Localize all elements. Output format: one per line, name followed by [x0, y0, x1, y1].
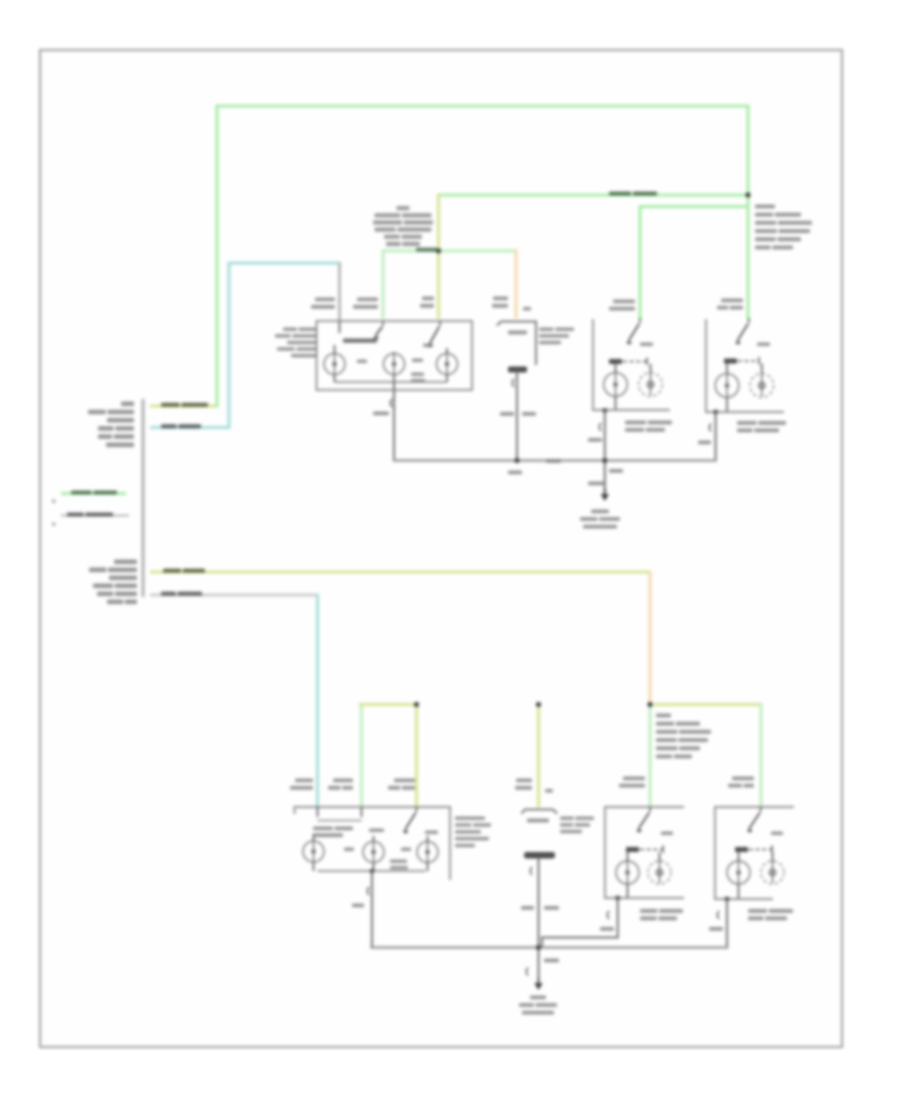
- LLR switch: [649, 807, 651, 812]
- lower module stem: [371, 871, 373, 948]
- wire pale green drop x650 low: [648, 705, 651, 807]
- wire green right drop: [746, 106, 749, 195]
- wire courtesy feed (cyan) stub: [150, 426, 229, 429]
- LRR gnd junction: [725, 897, 730, 902]
- lower module rail bottom: [318, 870, 426, 872]
- label C404: [588, 482, 604, 486]
- pin 2 switch: [382, 321, 384, 326]
- lower switch label: [425, 831, 438, 835]
- wire green right drop to switch: [746, 195, 749, 318]
- wire yg bridge top: [360, 703, 416, 706]
- module stem bracket: [390, 399, 392, 407]
- LLR stem bracket: [607, 911, 609, 919]
- engine lamp filament: [508, 367, 527, 373]
- LLR switch label: [661, 832, 673, 836]
- cargo lamp label: [560, 817, 574, 821]
- lower lamp 3: [417, 842, 438, 863]
- LR lamp A: [604, 373, 628, 397]
- junction dot S302 overlay: [647, 702, 652, 707]
- lower pin label 3: [394, 779, 415, 783]
- wire pale green drop x761: [759, 705, 762, 807]
- wire orange drop x650: [648, 572, 651, 704]
- cargo stem: [538, 859, 540, 982]
- junction dot bridge: [414, 702, 419, 707]
- lower module text2: [369, 829, 384, 833]
- upper ground bus: [394, 459, 716, 462]
- lower pin 1 stub: [317, 807, 319, 817]
- ground G302 label: [530, 996, 546, 1000]
- RR switch label: [757, 343, 770, 347]
- LR connector bar: [609, 359, 622, 364]
- lower pin 3 switch: [416, 807, 418, 812]
- switch small label: [423, 344, 433, 348]
- lower ground bus: [372, 946, 728, 949]
- pin 1 stub: [339, 321, 341, 333]
- cargo pin small: [545, 789, 553, 793]
- lower stem label: [352, 904, 364, 908]
- wire cyan riser: [229, 263, 340, 428]
- wire green mid run y195: [439, 193, 749, 196]
- RR switch: [748, 318, 750, 323]
- junction dot S301 overlay: [436, 248, 441, 253]
- ground G302: [538, 977, 540, 983]
- LR stem bracket: [599, 423, 601, 431]
- LLR lamp B: [648, 861, 671, 884]
- wire yg run y704: [650, 703, 761, 706]
- wire label courtesy stub: [161, 424, 177, 428]
- connector C270 face line: [141, 399, 144, 597]
- module blob mid2: [411, 373, 424, 377]
- lower module rail: [295, 806, 451, 808]
- legend wire LB/RD: [61, 492, 126, 495]
- lower pin label 2: [333, 779, 353, 783]
- lower module label right: [455, 817, 485, 821]
- label S404: [609, 469, 623, 473]
- junction dot cargo top: [536, 702, 541, 707]
- legend wire BK/PK: [61, 514, 129, 516]
- cargo lower bracket: [526, 968, 528, 976]
- LR label: [625, 421, 646, 425]
- LR switch label: [640, 343, 653, 347]
- junction dot cargo top overlay: [536, 702, 541, 707]
- dome lamp 2: [384, 354, 405, 375]
- junction dot S300 overlay: [745, 192, 750, 197]
- LLR pin label: [623, 777, 645, 781]
- LLR gnd junction: [615, 896, 620, 901]
- lower lamp blob b: [401, 848, 411, 852]
- wire yg drop x438: [437, 195, 440, 317]
- RR stem label: [698, 441, 711, 445]
- LRR box: [715, 807, 793, 899]
- left rear lamp box: [592, 320, 594, 410]
- wire pale green bridge left: [360, 706, 363, 808]
- LRR gnd stem: [726, 899, 728, 948]
- engine lamp resistor label: [508, 331, 527, 335]
- cargo lamp hood: [522, 810, 557, 814]
- LLR label: [640, 909, 657, 913]
- LLR connector bar: [626, 847, 639, 852]
- legend tick 2: [52, 523, 55, 526]
- engine stem label: [500, 412, 514, 416]
- note block lower: [656, 714, 671, 718]
- dome lamp 1: [324, 354, 345, 375]
- wire yg bridge right: [415, 705, 418, 808]
- lower lamp blob a: [344, 848, 354, 852]
- junction S404 on bus: [602, 458, 607, 463]
- engine lamp label: [539, 328, 554, 332]
- wire lower yg feed y572: [150, 570, 650, 573]
- module stem label: [373, 412, 389, 416]
- wire demand lamps feed (yellow-green): [150, 404, 217, 407]
- module blob mid-left: [357, 360, 367, 364]
- pin label 2: [357, 298, 378, 302]
- wire label y250: [416, 248, 437, 252]
- LLR lamp A: [616, 861, 639, 884]
- cargo lamp sub label: [527, 819, 549, 823]
- junction dot S404 overlay: [602, 458, 607, 463]
- module inner bar: [343, 339, 377, 343]
- RR label: [737, 421, 757, 425]
- lower pin 2 stub: [361, 807, 363, 817]
- legend label 2: [67, 513, 84, 517]
- label S310: [546, 459, 561, 463]
- ground G401: [604, 488, 606, 494]
- lower module text3: [390, 860, 407, 864]
- lower stem bracket: [367, 887, 369, 895]
- wire cyan drop x317: [316, 595, 319, 807]
- wire green branch y207: [640, 207, 748, 319]
- label block C270 upper: [121, 402, 134, 407]
- pin label RR: [721, 299, 743, 303]
- lower module right edge: [449, 807, 451, 879]
- LRR pin label: [732, 777, 754, 781]
- lower module left step: [294, 807, 296, 813]
- LRR stem label: [709, 927, 723, 931]
- wire pale green branch y251 left: [383, 251, 439, 317]
- LLR gnd stem: [542, 898, 618, 948]
- pin label engine small: [523, 307, 531, 311]
- RR lamp B: [750, 374, 774, 398]
- legend label 1: [71, 491, 92, 495]
- junction dot S310 overlay: [515, 458, 520, 463]
- ground G401 label: [591, 510, 609, 514]
- cargo filament: [524, 852, 555, 859]
- module blob mid: [412, 359, 423, 363]
- note block above S301: [397, 206, 410, 210]
- pin label 1: [315, 298, 335, 302]
- pin 3 switch: [439, 321, 441, 326]
- junction dot cargo bus overlay: [536, 945, 541, 950]
- lower pin label 1: [295, 779, 313, 783]
- wire orange drop x516: [514, 251, 517, 317]
- RR connector bar: [724, 359, 737, 364]
- RR gnd junction: [713, 410, 718, 415]
- wire yg cargo drop x538: [537, 705, 540, 807]
- junction splice S300: [745, 192, 750, 197]
- LRR lamp B: [761, 861, 784, 884]
- wire label demand feed: [161, 403, 180, 407]
- LRR lamp A: [727, 861, 750, 884]
- wire green top run: [217, 104, 748, 107]
- right rear lamp box: [705, 320, 707, 412]
- LR lamp B: [639, 373, 663, 397]
- note block top right: [755, 205, 775, 209]
- RR gnd stem: [715, 412, 717, 459]
- wire green riser left: [215, 106, 218, 406]
- wire pale green branch y251 right: [439, 249, 515, 252]
- label below lower bus: [544, 959, 559, 963]
- wire label lower gray: [161, 592, 176, 596]
- label block C270 lower: [114, 560, 137, 565]
- LRR switch label: [771, 832, 783, 836]
- dome lamp module box: [317, 321, 473, 390]
- pin label LR: [613, 300, 635, 304]
- LR gnd junction: [602, 408, 607, 413]
- RR stem bracket: [709, 424, 711, 432]
- lower pin sub-rail: [318, 820, 362, 822]
- wire lower gray feed y595: [150, 594, 318, 597]
- LRR stem bracket: [717, 911, 719, 919]
- lower module text: [313, 827, 333, 831]
- cargo pin label: [516, 779, 532, 783]
- engine stem bracket: [512, 379, 514, 387]
- lower stem dot: [370, 869, 375, 874]
- LLR box: [605, 807, 683, 898]
- pin label 3: [422, 297, 434, 301]
- module inner rail: [335, 381, 448, 383]
- junction splice S301: [436, 248, 441, 253]
- lower lamp 1: [303, 841, 324, 862]
- engine lamp stem: [516, 372, 518, 461]
- cargo junction on bus: [536, 945, 541, 950]
- LRR switch: [760, 807, 762, 812]
- lower lamp 2: [363, 842, 384, 863]
- module label left: [283, 328, 297, 332]
- module stem: [393, 382, 395, 461]
- junction splice S302: [647, 702, 652, 707]
- RR lamp A: [715, 374, 739, 398]
- legend tick 1: [52, 500, 55, 503]
- engine lamp hood: [498, 322, 537, 365]
- wire label 57 LB/RD: [609, 192, 631, 196]
- LRR connector bar: [735, 847, 748, 852]
- LR gnd stem: [604, 411, 606, 495]
- junction dot bridge overlay: [414, 702, 419, 707]
- LRR label: [748, 909, 767, 913]
- cargo stem label: [521, 906, 534, 910]
- junction S310: [514, 458, 519, 463]
- wire gray drop x339: [338, 263, 340, 320]
- label below bus: [508, 471, 522, 475]
- LR switch: [639, 318, 641, 323]
- pin label engine: [493, 297, 508, 301]
- cargo stem bracket: [530, 867, 532, 875]
- LR stem label: [588, 438, 602, 442]
- wire label lower yg: [163, 569, 181, 573]
- dome lamp 3: [437, 354, 458, 375]
- LLR stem label: [600, 927, 614, 931]
